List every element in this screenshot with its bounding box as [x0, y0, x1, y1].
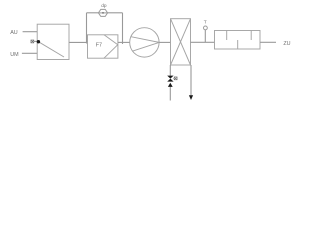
svg-text:F7: F7	[96, 42, 102, 48]
svg-text:AU: AU	[10, 30, 18, 36]
svg-text:T: T	[204, 20, 207, 26]
svg-text:ZU: ZU	[283, 41, 290, 47]
svg-text:dp: dp	[101, 3, 107, 9]
svg-text:UM: UM	[10, 52, 19, 58]
